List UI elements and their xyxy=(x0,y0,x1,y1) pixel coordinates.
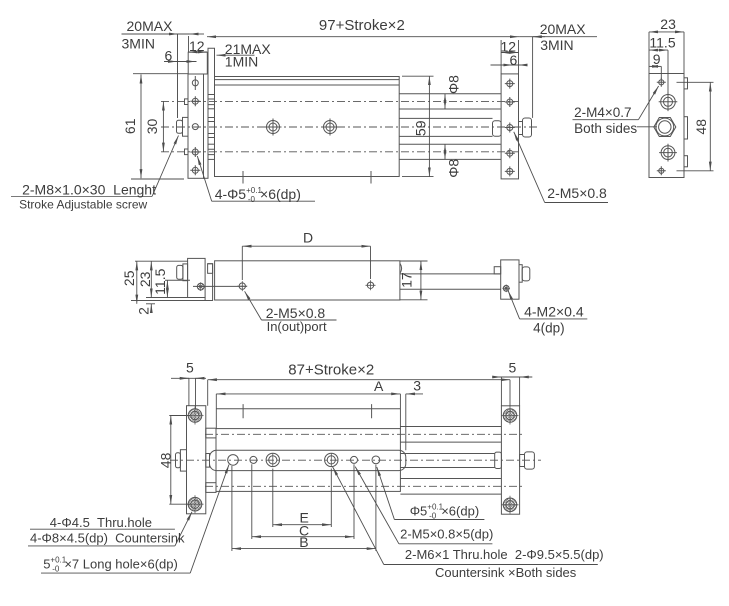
svg-text:48: 48 xyxy=(158,452,174,468)
svg-text:4-Φ4.5 Thru.hole: 4-Φ4.5 Thru.hole xyxy=(50,515,152,530)
svg-text:97+Stroke×2: 97+Stroke×2 xyxy=(319,17,405,34)
svg-text:6: 6 xyxy=(165,48,173,64)
svg-text:87+Stroke×2: 87+Stroke×2 xyxy=(288,362,374,379)
svg-text:61: 61 xyxy=(122,118,138,134)
svg-text:2-M5×0.8: 2-M5×0.8 xyxy=(547,185,607,201)
svg-text:4-M2×0.4: 4-M2×0.4 xyxy=(524,304,584,320)
svg-text:3: 3 xyxy=(413,378,421,394)
svg-text:2-M5×0.8×5(dp): 2-M5×0.8×5(dp) xyxy=(400,527,493,542)
svg-text:20MAX: 20MAX xyxy=(540,21,587,37)
svg-text:2-M8×1.0×30 Lenght: 2-M8×1.0×30 Lenght xyxy=(22,182,156,198)
svg-text:2: 2 xyxy=(135,307,151,315)
svg-text:Φ8: Φ8 xyxy=(446,75,462,94)
svg-text:D: D xyxy=(303,229,313,245)
svg-text:59: 59 xyxy=(413,120,429,136)
svg-text:20MAX: 20MAX xyxy=(127,18,174,34)
svg-text:25: 25 xyxy=(121,270,137,286)
svg-text:6: 6 xyxy=(510,52,518,68)
svg-text:4-Φ8×4.5(dp) Countersink: 4-Φ8×4.5(dp) Countersink xyxy=(30,531,185,546)
svg-text:5: 5 xyxy=(509,360,517,376)
svg-text:11.5: 11.5 xyxy=(649,34,675,50)
svg-text:12: 12 xyxy=(189,38,205,54)
svg-text:30: 30 xyxy=(144,119,160,135)
svg-text:9: 9 xyxy=(653,51,661,67)
svg-text:3MIN: 3MIN xyxy=(122,36,155,52)
svg-text:5+0.1-0×7 Long hole×6(dp): 5+0.1-0×7 Long hole×6(dp) xyxy=(43,556,178,574)
svg-text:Φ5+0.1-0×6(dp): Φ5+0.1-0×6(dp) xyxy=(410,503,479,521)
svg-text:B: B xyxy=(299,534,308,550)
svg-text:Φ8: Φ8 xyxy=(446,159,462,178)
svg-text:5: 5 xyxy=(186,360,194,376)
svg-text:11.5: 11.5 xyxy=(152,268,168,294)
svg-text:17: 17 xyxy=(399,272,415,288)
svg-text:In(out)port: In(out)port xyxy=(267,319,327,334)
svg-text:Both sides: Both sides xyxy=(574,121,637,136)
svg-text:Stroke Adjustable screw: Stroke Adjustable screw xyxy=(19,198,147,212)
svg-text:2-M6×1 Thru.hole 2-Φ9.5×5.5(d: 2-M6×1 Thru.hole 2-Φ9.5×5.5(dp) xyxy=(405,547,604,562)
svg-text:2-M4×0.7: 2-M4×0.7 xyxy=(574,105,631,120)
svg-text:Countersink ×Both sides: Countersink ×Both sides xyxy=(435,565,577,580)
svg-text:48: 48 xyxy=(693,119,709,135)
svg-text:23: 23 xyxy=(137,271,153,287)
svg-text:23: 23 xyxy=(660,16,676,32)
svg-text:4(dp): 4(dp) xyxy=(533,321,565,336)
svg-text:A: A xyxy=(374,378,384,394)
svg-text:1MIN: 1MIN xyxy=(225,54,258,70)
svg-text:3MIN: 3MIN xyxy=(540,37,573,53)
